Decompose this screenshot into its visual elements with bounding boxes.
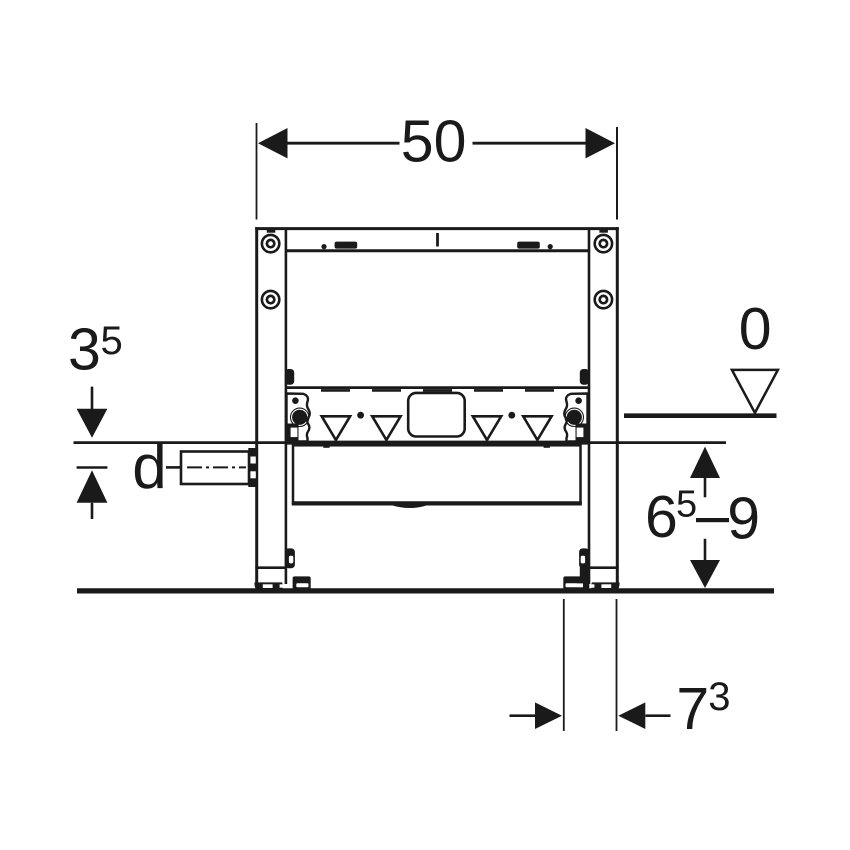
svg-text:3: 3 (68, 317, 101, 383)
svg-text:6: 6 (645, 484, 678, 550)
svg-text:0: 0 (739, 296, 772, 362)
svg-text:3: 3 (708, 675, 730, 719)
svg-text:50: 50 (401, 109, 467, 175)
svg-text:9: 9 (727, 486, 760, 552)
svg-text:d: d (132, 433, 166, 502)
svg-text:5: 5 (676, 484, 697, 526)
svg-text:7: 7 (676, 676, 709, 742)
svg-text:5: 5 (101, 319, 123, 363)
